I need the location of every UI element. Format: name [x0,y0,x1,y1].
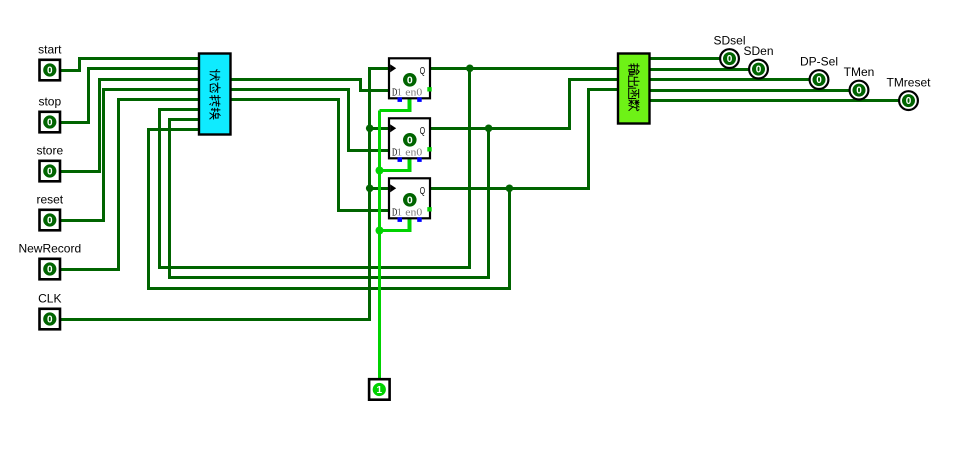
svg-text:store: store [36,143,63,157]
svg-text:SDen: SDen [743,44,773,58]
subcircuit state-transition box (cyan) [199,54,231,135]
wire output box output 1 to SDsel [649,57,723,60]
junction U3 Q / feedback [506,185,514,193]
wire output box output 2 to SDen [649,68,752,71]
svg-text:0: 0 [407,135,413,147]
wire state box output 1 to U1 D [230,80,391,91]
svg-text:0: 0 [816,75,822,86]
D flip-flop U3 [389,178,432,222]
output pin DP-Sel [810,70,829,89]
input pin CONST1 [369,379,390,400]
svg-text:start: start [38,42,62,56]
svg-text:1 en0: 1 en0 [396,147,422,159]
svg-text:TMreset: TMreset [886,75,931,89]
wire U1 enable to rail [408,98,412,111]
svg-text:TMen: TMen [844,65,875,79]
svg-text:Q: Q [420,186,426,197]
wire constant-1 rail vertical [378,111,381,382]
wire U1 Q to output box input 1 [429,67,620,70]
wire U3 Q to output box input 3 [429,90,620,189]
output pin SDsel [720,49,739,68]
wire state box output 3 to U3 D [230,100,391,211]
junction rail / U3 enable [376,227,384,235]
subcircuit output-function box (green) [618,54,650,124]
svg-text:0: 0 [756,65,762,76]
wire clock rail branch to U3 clock [370,187,391,190]
input pin stop [40,112,61,133]
output pin SDen [749,60,768,79]
svg-text:0: 0 [407,75,413,87]
svg-text:1 en0: 1 en0 [396,207,422,219]
wire U2 Q to output box input 2 [429,80,620,129]
svg-text:CLK: CLK [38,291,61,305]
wire state box output 2 to U2 D [230,90,391,151]
input pin store [40,161,61,182]
junction U2 Q / feedback [485,125,493,133]
D flip-flop U1 [389,58,432,102]
wire U1 Q feedback to state box input 6 [160,69,470,268]
svg-text:0: 0 [47,167,53,178]
wire U3 enable to rail [408,218,412,231]
D flip-flop U2 [389,118,432,162]
label state-transition (rotated CJK) [210,70,220,120]
svg-text:SDsel: SDsel [713,33,745,47]
input pin reset [40,210,61,231]
label output-function (rotated CJK) [629,64,639,111]
wire clock rail branch to U2 clock [370,127,391,130]
wire NewRecord to state box input 5 [59,100,201,270]
svg-text:1: 1 [377,385,383,396]
output pin TMen [850,81,869,100]
svg-text:0: 0 [47,66,53,77]
wire start to state box input 1 [59,59,201,71]
svg-text:Q: Q [420,66,426,77]
svg-text:0: 0 [407,195,413,207]
input pin CLK [40,309,61,330]
wire store to state box input 3 [59,80,201,172]
svg-text:0: 0 [856,86,862,97]
svg-text:reset: reset [36,192,63,206]
wire U3 Q feedback to state box input 8 [149,130,510,289]
svg-text:0: 0 [47,216,53,227]
svg-text:0: 0 [906,96,912,107]
svg-text:0: 0 [727,54,733,65]
svg-text:DP-Sel: DP-Sel [800,54,838,68]
input pin start [40,60,61,81]
svg-text:Q: Q [420,126,426,137]
svg-text:1 en0: 1 en0 [396,87,422,99]
wire U2 Q feedback to state box input 7 [170,120,489,278]
junction U1 Q / feedback [466,65,474,73]
wire stop to state box input 2 [59,69,201,123]
svg-text:stop: stop [38,94,61,108]
wire output box output 4 to TMen [649,89,852,92]
wire reset to state box input 4 [59,90,201,221]
svg-text:NewRecord: NewRecord [18,241,81,255]
junction clock rail / U2 clock [366,125,374,133]
svg-text:0: 0 [47,265,53,276]
output pin TMreset [899,91,918,110]
wire CLK to clock rail [59,69,391,320]
wire output box output 5 to TMreset [649,99,902,102]
junction clock rail / U3 clock [366,185,374,193]
svg-text:0: 0 [47,118,53,129]
wire output box output 3 to DP-Sel [649,78,812,81]
junction rail / U2 enable [376,167,384,175]
input pin NewRecord [40,259,61,280]
wire U2 enable to rail [408,158,412,171]
svg-text:0: 0 [47,315,53,326]
